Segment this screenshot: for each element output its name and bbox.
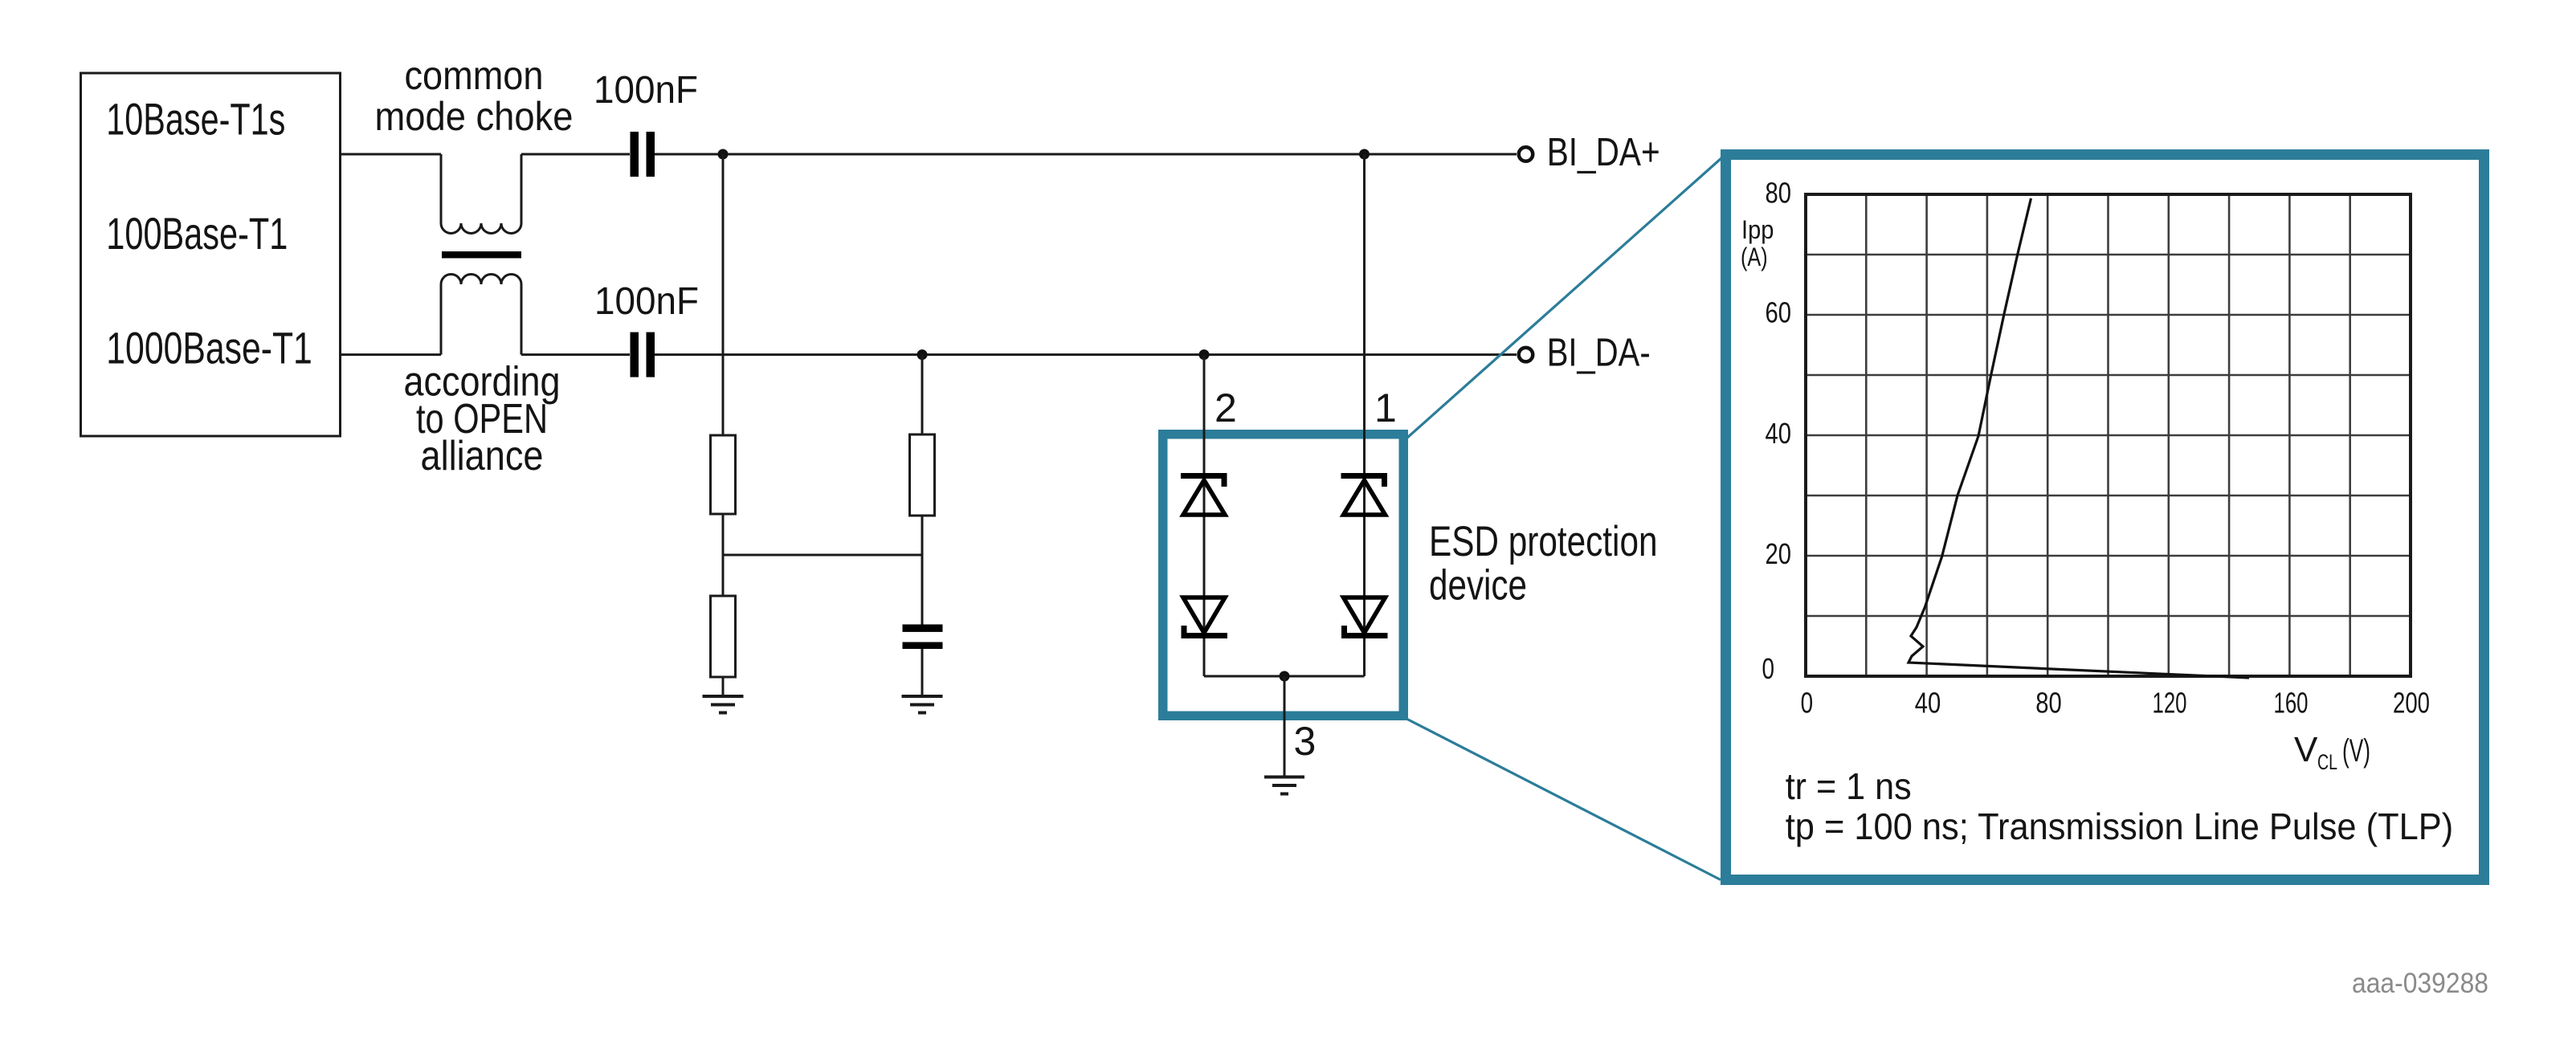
wire R3 to ground [722,677,725,696]
inset graph box (teal) [1726,155,2484,880]
node junction top at ESD pin1 [1359,149,1370,160]
wire choke to capacitor C1 [521,153,630,156]
svg-text:device: device [1429,561,1527,609]
svg-text:120: 120 [2153,687,2187,720]
svg-text:Ipp: Ipp [1741,215,1774,244]
svg-text:0: 0 [1762,652,1775,685]
node junction bottom at ESD pin2 [1199,349,1210,360]
svg-text:1000Base-T1: 1000Base-T1 [106,323,312,373]
PHY block box [81,73,341,436]
capacitor C1 100nF (top line) [631,132,639,177]
wire top from PHY box to choke [341,153,442,156]
capacitor C2 100nF (bottom line) [631,332,639,377]
callout diagonal top (teal) [1407,158,1721,438]
node junction bottom at R2 [917,349,928,360]
node junction top at R1 [718,149,729,160]
svg-text:100nF: 100nF [594,69,698,112]
svg-text:20: 20 [1766,537,1792,570]
wire vertical to R2 [921,355,924,434]
ground (pin 3) [1264,777,1304,794]
wire BI_DA+ line [655,153,1517,156]
svg-text:BI_DA+: BI_DA+ [1547,131,1660,174]
diode D3 top-right (cathode bar with hook) [1341,476,1385,487]
diode D1 top-left (cathode bar with hook) [1181,476,1224,487]
svg-text:100Base-T1: 100Base-T1 [106,208,288,259]
svg-text:V: V [2294,730,2318,769]
svg-text:10Base-T1s: 10Base-T1s [106,94,285,145]
wire vertical to R1 [722,154,725,435]
ground (below C3) [902,696,943,713]
wire center tap connector [723,554,922,557]
diode D2 bottom-left (cathode bar with hook) [1183,597,1225,633]
svg-text:80: 80 [2035,687,2062,720]
svg-text:(A): (A) [1741,243,1768,271]
common mode choke L2 (bottom winding) [441,275,521,355]
svg-text:80: 80 [1766,177,1792,210]
diode D4 bottom-right (cathode bar with hook) [1344,597,1386,633]
node junction pin3 [1280,671,1290,682]
svg-text:(V): (V) [2342,733,2370,769]
wire pin3 to ground [1284,676,1286,777]
terminal BI_DA+ [1519,147,1533,161]
svg-text:common: common [405,53,544,98]
wire BI_DA- line [655,353,1517,356]
svg-text:1: 1 [1374,385,1397,430]
svg-text:tr = 1 ns: tr = 1 ns [1786,765,1912,807]
svg-text:40: 40 [1915,687,1941,720]
wire choke to capacitor C2 [521,353,630,356]
svg-text:alliance: alliance [421,433,544,479]
resistor R2 [910,434,935,516]
svg-text:BI_DA-: BI_DA- [1547,332,1651,375]
TLP curve [1909,198,2249,678]
wire bottom rail inside ESD box [1204,675,1365,678]
ground (below R3) [703,696,744,713]
svg-text:100nF: 100nF [594,280,699,323]
svg-text:200: 200 [2393,687,2430,720]
svg-text:160: 160 [2274,687,2309,720]
capacitor C3 (center tap to ground) [903,625,943,632]
svg-text:40: 40 [1766,417,1792,450]
svg-text:ESD protection: ESD protection [1429,518,1658,565]
svg-text:tp = 100 ns; Transmission Line: tp = 100 ns; Transmission Line Pulse (TL… [1786,805,2454,847]
choke core bar [442,251,521,259]
svg-text:mode choke: mode choke [375,94,574,139]
svg-text:CL: CL [2317,750,2337,774]
wire R1 to R3 [722,514,725,596]
svg-text:aaa-039288: aaa-039288 [2352,968,2488,999]
callout diagonal bottom (teal) [1406,719,1721,880]
svg-text:2: 2 [1215,385,1237,430]
svg-text:3: 3 [1294,719,1317,764]
terminal BI_DA- [1519,348,1533,362]
wire bottom from PHY box to choke [341,353,442,356]
svg-text:0: 0 [1801,687,1814,720]
chart frame [1806,194,2411,676]
chart gridlines [1806,194,2411,676]
wire R2 to C3 [921,516,924,625]
wire pin1 from BI_DA+ into box (continuous through diodes) [1363,154,1366,676]
ESD protection device box (teal) [1163,434,1404,716]
wire C3 to ground [921,649,924,696]
wire pin2 from BI_DA- into box (continuous through diodes) [1203,355,1206,676]
svg-text:60: 60 [1766,296,1792,329]
resistor R3 [711,596,736,677]
common mode choke L1 (top winding) [441,154,521,234]
resistor R1 [711,435,736,514]
